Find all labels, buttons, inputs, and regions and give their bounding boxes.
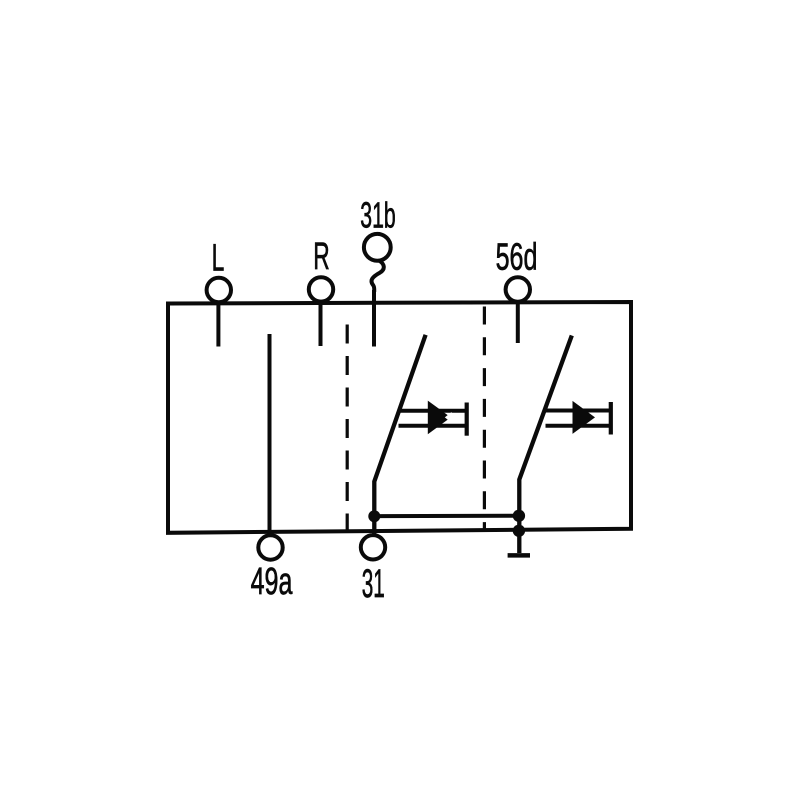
ground symbol bar bbox=[508, 553, 530, 558]
svg-text:49a: 49a bbox=[251, 560, 293, 602]
terminal R circle bbox=[309, 277, 333, 301]
actuator arrow 1 head notch bbox=[445, 412, 452, 423]
svg-text:56d: 56d bbox=[496, 235, 538, 277]
switch contact blade 1 (left) bbox=[374, 335, 425, 535]
wire: terminal R stub into box bbox=[319, 303, 323, 346]
actuator arrow 2 end bar bbox=[609, 402, 613, 435]
terminal 56d circle bbox=[506, 277, 530, 301]
svg-text:31b: 31b bbox=[360, 196, 395, 236]
actuator arrow 1 head bbox=[428, 401, 451, 435]
dashed divider line 1 bbox=[346, 325, 349, 531]
terminal 31b circle bbox=[364, 234, 391, 261]
actuator arrow 2 shaft lower bbox=[546, 424, 611, 428]
actuator arrow 1 shaft upper bbox=[399, 409, 467, 413]
terminal L circle bbox=[207, 278, 231, 302]
dashed divider line 2 bbox=[483, 307, 486, 532]
terminal 49a circle bbox=[258, 535, 282, 559]
junction dot at blade 1 / link bbox=[368, 510, 380, 522]
actuator arrow 1 end bar bbox=[465, 403, 469, 436]
switch body outline box bbox=[168, 302, 631, 533]
actuator arrow 1 shaft lower bbox=[399, 424, 467, 428]
wire: terminal 56d stub into box bbox=[516, 303, 520, 343]
switch contact blade 2 (right) bbox=[519, 336, 572, 554]
wire: 31b squiggle lead bbox=[371, 261, 383, 293]
actuator arrow 2 shaft upper bbox=[546, 409, 611, 413]
actuator arrow 2 head bbox=[573, 401, 596, 434]
junction dot at blade 2 / box bottom bbox=[513, 525, 525, 537]
wire: 31b lead into box bbox=[372, 290, 376, 347]
svg-text:31: 31 bbox=[362, 561, 385, 606]
junction dot at blade 2 / link bbox=[513, 510, 525, 522]
svg-text:L: L bbox=[212, 237, 225, 279]
svg-text:R: R bbox=[313, 235, 329, 277]
wire: terminal L stub into box bbox=[216, 304, 220, 347]
terminal 31 circle bbox=[361, 535, 385, 559]
wire: bottom link between blades bbox=[374, 514, 519, 519]
wire: 49a conductor inside box bbox=[268, 334, 272, 532]
